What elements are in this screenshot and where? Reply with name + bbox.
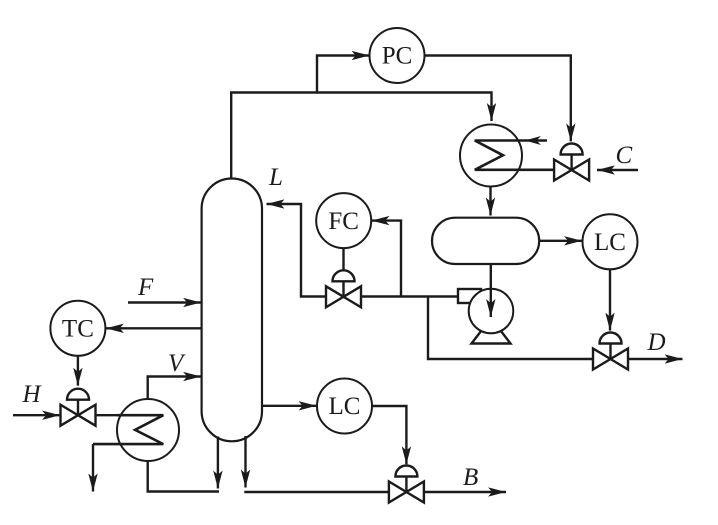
svg-text:D: D	[647, 329, 666, 356]
wire: H valve to reboiler	[96, 414, 121, 416]
wire: column level tap to LC	[262, 405, 317, 407]
svg-text:LC: LC	[329, 393, 361, 420]
wire: condenser to reflux drum	[489, 187, 491, 216]
wire: drum to pump suction	[490, 264, 492, 317]
controller PC	[370, 28, 425, 83]
svg-text:V: V	[168, 350, 186, 377]
wire: pump discharge / reflux line L into column	[267, 204, 459, 297]
svg-text:L: L	[268, 164, 283, 191]
distillation column T1	[202, 179, 262, 442]
wire: reboiler vapor return V to column	[148, 377, 201, 400]
controller TC	[50, 301, 105, 356]
wire: bottoms product line B	[244, 491, 506, 493]
controller FC	[316, 193, 371, 248]
svg-text:H: H	[22, 381, 43, 408]
wire: column temperature tap to TC	[106, 327, 201, 329]
wire: LC to distillate valve actuator	[609, 269, 611, 330]
wire: heating medium inlet H	[13, 414, 60, 416]
wire: FC to reflux valve stem	[342, 248, 344, 272]
svg-text:F: F	[137, 274, 154, 301]
wire: drum level tap to LC	[539, 240, 582, 242]
valve: heating medium valve	[61, 389, 96, 426]
valve: coolant control valve	[554, 144, 589, 181]
controller LC (bottoms)	[317, 379, 372, 434]
wire: column overhead vapor line to condenser	[231, 93, 491, 179]
reflux drum	[432, 218, 539, 264]
valve: bottoms valve B	[389, 466, 424, 503]
wire: heating medium outlet drain	[92, 444, 94, 491]
valve: distillate valve D	[593, 333, 628, 370]
wire: feed F into column	[128, 301, 201, 303]
condenser E1	[460, 125, 554, 187]
svg-text:LC: LC	[594, 229, 626, 256]
reboiler E2	[93, 399, 179, 461]
pump P1	[458, 289, 513, 344]
wire: distillate branch to D valve and out	[428, 297, 683, 360]
wire: pressure tap to PC	[317, 56, 370, 93]
svg-text:C: C	[616, 142, 633, 169]
valve: reflux control valve	[326, 270, 361, 307]
wire: PC output to coolant valve actuator	[425, 56, 571, 142]
controller LC (distillate)	[583, 214, 638, 269]
wire: reboiler circulation return	[148, 461, 219, 492]
wire: LC to bottoms valve actuator	[372, 406, 406, 464]
wire: TC to H valve actuator	[77, 356, 79, 386]
svg-text:FC: FC	[328, 208, 359, 235]
svg-text:B: B	[463, 464, 478, 491]
wire: coolant inlet C	[597, 169, 638, 171]
svg-text:TC: TC	[62, 315, 94, 342]
wire: column bottoms downcomer to reboiler loop	[217, 437, 219, 489]
wire: column bottoms product downcomer	[244, 436, 246, 488]
svg-text:PC: PC	[382, 43, 413, 70]
wire: flow tap to FC	[372, 221, 402, 297]
